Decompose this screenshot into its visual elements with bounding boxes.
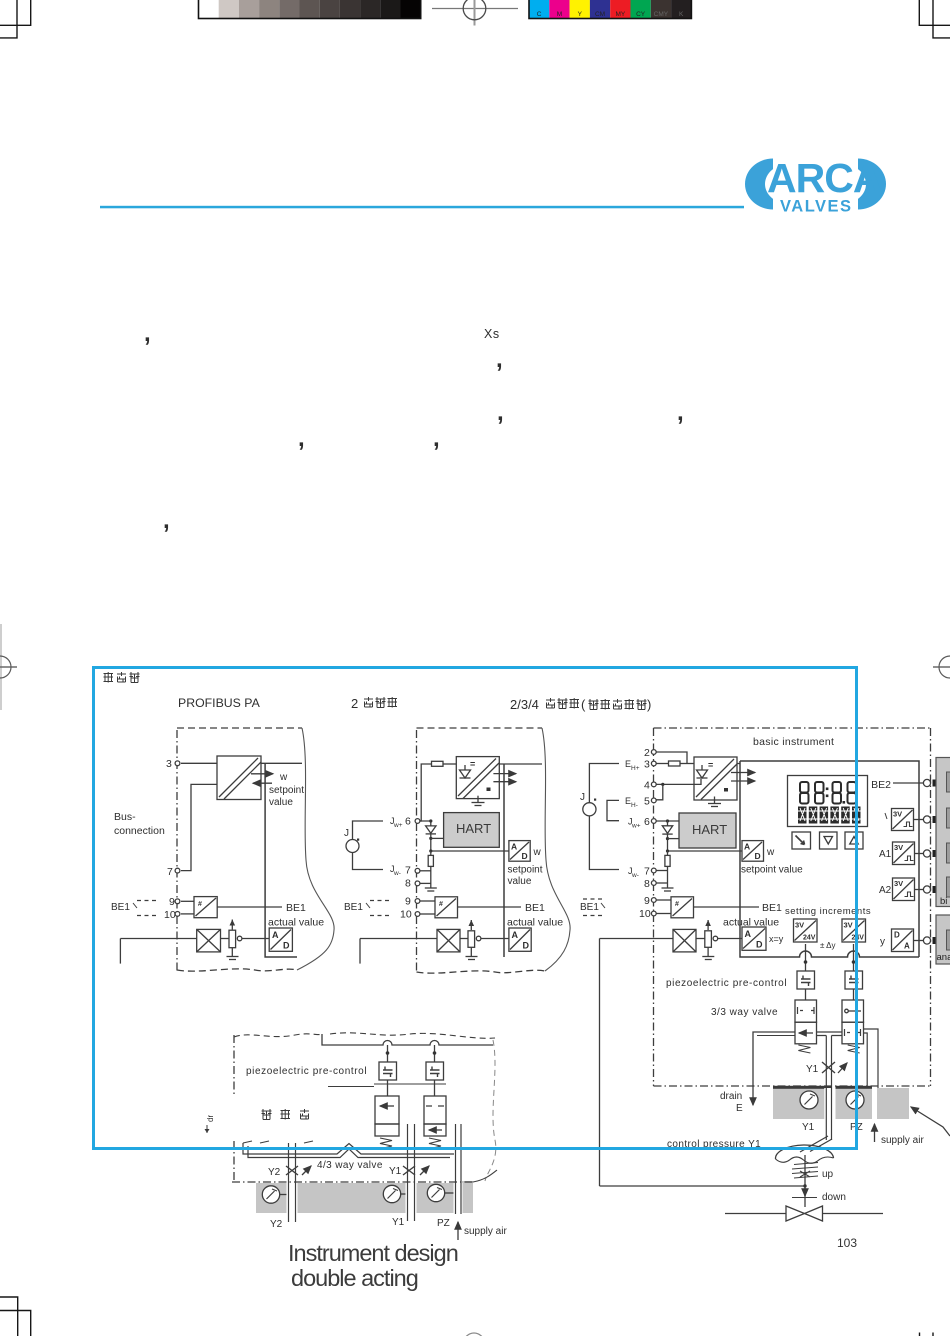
svg-text:,: , bbox=[298, 425, 305, 452]
svg-text:± Δy: ± Δy bbox=[820, 941, 836, 950]
svg-text:Bus-: Bus- bbox=[114, 811, 136, 823]
svg-text:supply air: supply air bbox=[881, 1135, 924, 1146]
svg-text:A: A bbox=[272, 930, 279, 940]
svg-text:w+: w+ bbox=[393, 822, 403, 829]
svg-text:24V: 24V bbox=[803, 935, 816, 942]
svg-text:#: # bbox=[439, 901, 443, 908]
svg-text:10: 10 bbox=[400, 909, 412, 921]
svg-text:9: 9 bbox=[405, 896, 411, 908]
svg-text:5: 5 bbox=[644, 796, 650, 808]
svg-text:Y: Y bbox=[578, 11, 583, 18]
svg-text:double acting: double acting bbox=[291, 1265, 418, 1291]
svg-text:#: # bbox=[198, 901, 202, 908]
svg-text:Y2: Y2 bbox=[268, 1167, 281, 1178]
svg-text:,: , bbox=[496, 346, 503, 373]
svg-text:HART: HART bbox=[692, 822, 727, 837]
svg-text:piezoelectric pre-control: piezoelectric pre-control bbox=[666, 978, 787, 989]
svg-text:3V: 3V bbox=[893, 810, 902, 819]
svg-text:ana: ana bbox=[937, 952, 950, 963]
svg-text:3V: 3V bbox=[894, 879, 903, 888]
svg-text:D: D bbox=[755, 851, 761, 861]
svg-text:2: 2 bbox=[644, 747, 650, 759]
svg-text:value: value bbox=[508, 876, 532, 887]
svg-text:): ) bbox=[647, 697, 651, 712]
svg-text:Y1: Y1 bbox=[392, 1217, 405, 1228]
svg-text:3: 3 bbox=[166, 758, 172, 770]
svg-text:E: E bbox=[736, 1103, 743, 1114]
svg-text:BE1: BE1 bbox=[580, 902, 599, 913]
svg-text:A: A bbox=[904, 942, 910, 951]
svg-text:9: 9 bbox=[644, 895, 650, 907]
svg-text:BE1: BE1 bbox=[762, 902, 782, 914]
svg-text:2: 2 bbox=[351, 696, 358, 711]
svg-text:D: D bbox=[523, 941, 530, 951]
svg-text:w-: w- bbox=[631, 872, 639, 879]
svg-text:actual value: actual value bbox=[507, 917, 563, 929]
svg-text:4/3 way valve: 4/3 way valve bbox=[317, 1160, 383, 1171]
svg-text:7: 7 bbox=[405, 865, 411, 877]
svg-text:D: D bbox=[894, 931, 900, 940]
svg-text:w: w bbox=[766, 847, 775, 858]
svg-text:drain: drain bbox=[720, 1091, 742, 1102]
svg-text:D: D bbox=[522, 851, 528, 861]
svg-text:,: , bbox=[433, 425, 440, 452]
svg-text:Y1: Y1 bbox=[806, 1064, 819, 1075]
svg-text:10: 10 bbox=[639, 908, 651, 920]
svg-text:J: J bbox=[344, 828, 349, 839]
svg-text:PZ: PZ bbox=[437, 1218, 450, 1229]
svg-text:Y2: Y2 bbox=[270, 1219, 283, 1230]
svg-text:setpoint: setpoint bbox=[508, 865, 543, 876]
svg-text:x=y: x=y bbox=[769, 934, 784, 944]
svg-text:up: up bbox=[822, 1169, 834, 1180]
svg-text:MY: MY bbox=[616, 11, 626, 18]
svg-text:7: 7 bbox=[167, 866, 173, 878]
svg-text:K: K bbox=[679, 11, 684, 18]
svg-text:ARCA: ARCA bbox=[767, 155, 882, 201]
svg-text:setpoint value: setpoint value bbox=[741, 865, 803, 876]
svg-text:H-: H- bbox=[631, 802, 638, 809]
svg-text:8: 8 bbox=[405, 878, 411, 890]
svg-text:=: = bbox=[708, 760, 713, 770]
svg-text:D: D bbox=[756, 940, 763, 950]
svg-text:3V: 3V bbox=[795, 921, 804, 930]
svg-text:CY: CY bbox=[636, 11, 646, 18]
svg-text:Xs: Xs bbox=[484, 327, 500, 341]
svg-text:BE2: BE2 bbox=[871, 779, 891, 791]
svg-text:dr: dr bbox=[206, 1115, 215, 1122]
svg-text:3V: 3V bbox=[894, 843, 903, 852]
svg-text:Instrument design: Instrument design bbox=[288, 1240, 458, 1266]
svg-text:4: 4 bbox=[644, 780, 650, 792]
svg-text:M: M bbox=[557, 11, 562, 18]
svg-text:,: , bbox=[497, 399, 504, 426]
svg-text:6: 6 bbox=[644, 816, 650, 828]
svg-text:A: A bbox=[745, 929, 752, 939]
svg-text:w-: w- bbox=[393, 870, 401, 877]
svg-text:#: # bbox=[675, 901, 679, 908]
svg-text:piezoelectric pre-control: piezoelectric pre-control bbox=[246, 1066, 367, 1077]
svg-text:HART: HART bbox=[456, 821, 491, 836]
svg-text:bi: bi bbox=[940, 896, 947, 907]
svg-text:CMY: CMY bbox=[654, 11, 669, 18]
svg-text:9: 9 bbox=[169, 896, 175, 908]
svg-text:w+: w+ bbox=[631, 823, 641, 830]
svg-text:10: 10 bbox=[164, 909, 176, 921]
svg-text:,: , bbox=[677, 399, 684, 426]
svg-text:(: ( bbox=[581, 697, 586, 712]
svg-text:=: = bbox=[470, 759, 475, 769]
svg-text:w: w bbox=[279, 772, 288, 783]
svg-text:2/3/4: 2/3/4 bbox=[510, 697, 539, 712]
svg-text:103: 103 bbox=[837, 1236, 857, 1250]
svg-text:setpoint: setpoint bbox=[269, 785, 304, 796]
svg-text:BE1: BE1 bbox=[111, 902, 130, 913]
svg-text:BE1: BE1 bbox=[525, 902, 545, 914]
svg-text:7: 7 bbox=[644, 866, 650, 878]
svg-text:BE1: BE1 bbox=[286, 902, 306, 914]
svg-text:A: A bbox=[744, 842, 750, 852]
svg-text:Y1: Y1 bbox=[389, 1166, 402, 1177]
svg-text:Y1: Y1 bbox=[802, 1122, 815, 1133]
svg-text:A1: A1 bbox=[879, 849, 892, 860]
svg-text:basic instrument: basic instrument bbox=[753, 736, 834, 748]
svg-text:8: 8 bbox=[644, 878, 650, 890]
svg-text:y: y bbox=[880, 937, 885, 948]
svg-text:6: 6 bbox=[405, 816, 411, 828]
svg-text:CM: CM bbox=[595, 11, 605, 18]
svg-text:C: C bbox=[537, 11, 542, 18]
svg-text:A2: A2 bbox=[879, 885, 892, 896]
svg-text:3V: 3V bbox=[844, 921, 853, 930]
svg-text:setting increments: setting increments bbox=[785, 906, 871, 917]
svg-text:,: , bbox=[163, 507, 170, 534]
svg-text:actual value: actual value bbox=[268, 917, 324, 929]
svg-text:VALVES: VALVES bbox=[780, 198, 853, 216]
svg-text:3/3 way valve: 3/3 way valve bbox=[711, 1007, 778, 1018]
svg-text:down: down bbox=[822, 1192, 846, 1203]
svg-text:3: 3 bbox=[644, 759, 650, 771]
svg-text:w: w bbox=[533, 847, 542, 858]
svg-text:connection: connection bbox=[114, 825, 165, 837]
svg-text:A: A bbox=[511, 842, 517, 852]
svg-text:,: , bbox=[144, 320, 151, 347]
svg-text:BE1: BE1 bbox=[344, 902, 363, 913]
svg-text:H+: H+ bbox=[631, 765, 640, 772]
svg-text:J: J bbox=[580, 792, 585, 803]
svg-text:supply air: supply air bbox=[464, 1226, 507, 1237]
svg-text:D: D bbox=[283, 941, 290, 951]
svg-text:PROFIBUS PA: PROFIBUS PA bbox=[178, 696, 261, 710]
svg-text:value: value bbox=[269, 797, 293, 808]
svg-text:A: A bbox=[512, 930, 519, 940]
